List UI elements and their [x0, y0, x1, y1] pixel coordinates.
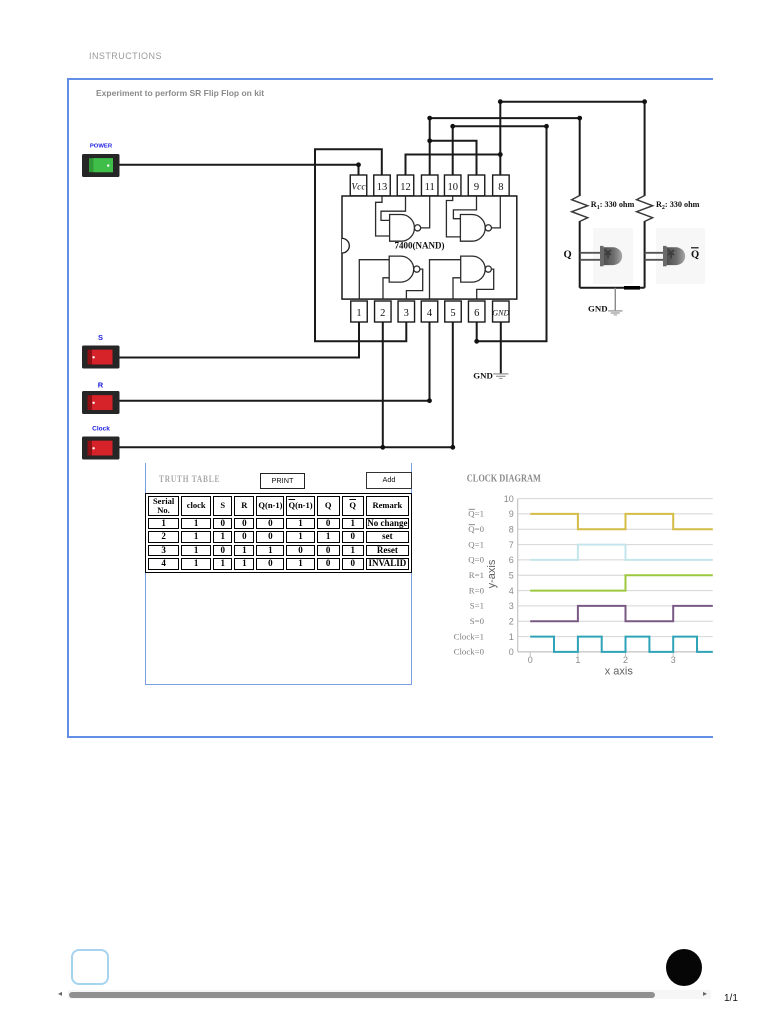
svg-text:Vcc: Vcc: [351, 183, 366, 193]
svg-text:4: 4: [427, 308, 433, 319]
svg-text:Clock=0: Clock=0: [454, 647, 485, 657]
svg-text:2: 2: [380, 308, 385, 319]
svg-text:1: 1: [356, 308, 361, 319]
svg-text:6: 6: [509, 555, 514, 565]
svg-text:0: 0: [528, 655, 533, 665]
svg-text:R=0: R=0: [469, 585, 485, 595]
svg-text:Clock=1: Clock=1: [454, 631, 484, 641]
svg-text:S=1: S=1: [470, 601, 484, 611]
svg-text:Clock: Clock: [92, 425, 110, 432]
svg-text:0: 0: [509, 647, 514, 657]
svg-text:9: 9: [509, 509, 514, 519]
svg-text:8: 8: [509, 525, 514, 535]
svg-text:7400(NAND): 7400(NAND): [395, 241, 445, 251]
svg-text:6: 6: [474, 308, 479, 319]
svg-text:10: 10: [447, 182, 458, 193]
svg-text:5: 5: [450, 308, 455, 319]
svg-text:Q=1: Q=1: [468, 509, 484, 519]
svg-text:Q=1: Q=1: [468, 539, 484, 549]
svg-text:11: 11: [425, 182, 435, 193]
svg-text:5: 5: [509, 570, 514, 580]
svg-text:9: 9: [474, 182, 479, 193]
svg-text:CLOCK DIAGRAM: CLOCK DIAGRAM: [467, 474, 541, 485]
svg-text:3: 3: [404, 308, 409, 319]
svg-text:y-axis: y-axis: [486, 559, 498, 588]
svg-text:x axis: x axis: [605, 666, 634, 678]
svg-text:GND: GND: [473, 370, 493, 380]
svg-text:GND: GND: [492, 309, 509, 318]
svg-text:8: 8: [498, 182, 503, 193]
svg-text:Q=0: Q=0: [468, 555, 484, 565]
svg-text:7: 7: [509, 540, 514, 550]
svg-text:GND: GND: [588, 304, 608, 314]
svg-text:12: 12: [400, 182, 411, 193]
svg-text:Q: Q: [564, 250, 572, 261]
svg-text:13: 13: [377, 182, 388, 193]
svg-text:10: 10: [504, 494, 514, 504]
svg-text:3: 3: [509, 601, 514, 611]
svg-text:3: 3: [671, 655, 676, 665]
svg-text:S: S: [98, 333, 103, 342]
svg-text:R: R: [98, 380, 104, 389]
svg-text:4: 4: [509, 586, 514, 596]
svg-text:R1: 330 ohm: R1: 330 ohm: [591, 200, 635, 211]
svg-text:1: 1: [575, 655, 580, 665]
svg-text:Q: Q: [691, 250, 699, 261]
svg-text:POWER: POWER: [90, 144, 113, 150]
svg-text:R=1: R=1: [469, 570, 484, 580]
svg-text:1: 1: [509, 632, 514, 642]
svg-text:S=0: S=0: [470, 616, 485, 626]
svg-text:2: 2: [509, 616, 514, 626]
svg-text:R2: 330 ohm: R2: 330 ohm: [656, 200, 700, 211]
svg-text:2: 2: [623, 655, 628, 665]
svg-text:Q=0: Q=0: [468, 524, 484, 534]
